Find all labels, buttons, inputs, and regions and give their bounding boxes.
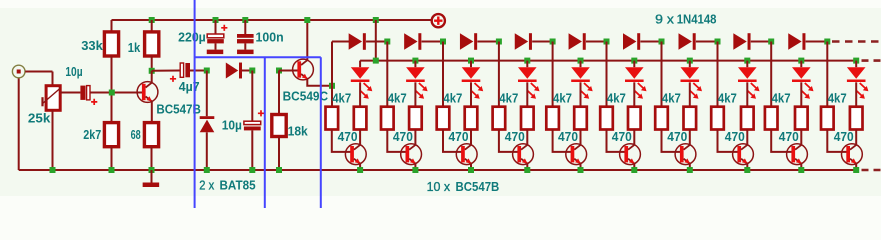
potentiometer 25k — [41, 86, 60, 111]
wire ladder segment 2 — [422, 41, 443, 43]
svg-text:4k7: 4k7 — [443, 91, 462, 106]
wire tap to R6a — [606, 42, 608, 107]
resistor R10b 470 — [850, 107, 863, 130]
svg-text:4µ7: 4µ7 — [179, 79, 200, 94]
junction C4-ground rail — [249, 167, 255, 173]
blue partition line vertical right — [320, 57, 322, 208]
transistor Q8 BC547B stage 6 — [620, 144, 641, 165]
junction emitter 3-ground rail — [468, 167, 474, 173]
wire R6a to Q8 base — [607, 130, 626, 152]
LED D12 stage 1 — [351, 67, 373, 99]
resistor R3b 470 — [465, 107, 478, 130]
wire pot bottom to rail — [52, 110, 54, 170]
wire R9a to Q11 base — [771, 130, 792, 152]
wire bus to LED3 — [470, 61, 472, 68]
wire Q7 emitter to rail — [580, 163, 582, 170]
svg-text:470: 470 — [667, 129, 687, 144]
wire rail to 1k — [151, 20, 153, 32]
wire LED2 to R2b — [414, 82, 416, 106]
junction 18k top — [276, 68, 282, 74]
blue partition line horizontal — [195, 56, 321, 58]
wire R1a to Q3 base — [332, 130, 351, 152]
diode D4 1N4148 number 2 — [404, 33, 421, 50]
diode D9 1N4148 number 7 — [679, 33, 696, 50]
resistor R5a 4k7 — [546, 107, 559, 130]
wire Q9 emitter to rail — [689, 163, 691, 170]
capacitor C4 10u — [244, 121, 261, 130]
diode D11 1N4148 number 9 — [788, 33, 805, 50]
junction emitter 9-ground rail — [798, 167, 804, 173]
junction LED bus tap 8 — [744, 58, 750, 64]
wire R5b to Q7 collector — [580, 130, 582, 145]
wire pot to C1 — [60, 92, 80, 94]
wire 68 to rail — [151, 147, 153, 170]
junction pot-ground rail — [50, 167, 56, 173]
junction ladder tap 1 — [384, 39, 390, 45]
wire tap to R4a — [498, 42, 500, 107]
junction D2-ground rail — [204, 167, 210, 173]
junction ladder tap 8 — [768, 39, 774, 45]
junction ladder tap 7 — [715, 39, 721, 45]
wire bottom ground rail — [19, 169, 857, 171]
wire R4a to Q6 base — [499, 130, 518, 152]
wire R10a to Q12 base — [827, 130, 847, 152]
transistor Q4 BC547B stage 2 — [401, 144, 422, 165]
wire LED10 to R10b — [855, 82, 857, 106]
junction emitter 7-ground rail — [687, 167, 693, 173]
junction 2k7-ground rail — [109, 167, 115, 173]
svg-text:33k: 33k — [81, 38, 103, 53]
wire LED1 to R1b — [359, 82, 361, 106]
junction ladder tap 6 — [659, 39, 665, 45]
wire bus to LED4 — [526, 61, 528, 68]
LED D18 stage 7 — [681, 67, 703, 99]
junction Q2 collector-rail — [304, 17, 310, 23]
junction 1k top — [149, 17, 155, 23]
resistor R7a 4k7 — [655, 107, 668, 130]
wire ladder segment 6 — [640, 41, 661, 43]
LED D17 stage 6 — [625, 67, 647, 99]
wire R8a to Q10 base — [718, 130, 739, 152]
LED D20 stage 9 — [792, 67, 814, 99]
transistor Q1 BC547B — [137, 82, 158, 103]
svg-text:25k: 25k — [28, 110, 51, 125]
junction 18k-ground rail — [276, 167, 282, 173]
wire R1b to Q3 collector — [359, 130, 361, 145]
wire node to D2 — [206, 71, 208, 117]
wire C1 to Q1 base — [90, 92, 142, 94]
junction emitter 2-ground rail — [412, 167, 418, 173]
svg-text:18k: 18k — [288, 124, 309, 139]
transistor Q7 BC547B stage 5 — [566, 144, 587, 165]
junction LED bus feed — [373, 58, 379, 64]
wire dashed continuation of bottom rail — [862, 169, 881, 172]
resistor R4b 470 — [521, 107, 534, 130]
wire Q3 emitter to rail — [359, 163, 361, 170]
junction LED bus tap 10 — [853, 58, 859, 64]
wire 100n to ground — [244, 43, 246, 49]
wire R2b to Q4 collector — [414, 130, 416, 145]
wire tap to R7a — [661, 42, 663, 107]
wire R2a to Q4 base — [387, 130, 406, 152]
junction Q1 base node — [109, 90, 115, 96]
wire Q10 emitter to rail — [746, 163, 748, 170]
diode D1 BAT85 series — [226, 63, 242, 79]
svg-text:220µ: 220µ — [178, 30, 206, 45]
input connector J1 — [12, 65, 25, 78]
wire R9b to Q11 collector — [800, 130, 802, 145]
resistor 68 — [144, 123, 158, 147]
wire bus to LED9 — [800, 61, 802, 68]
wire Q11 emitter to rail — [800, 163, 802, 170]
wire tap to R2a — [386, 42, 388, 107]
junction emitter 4-ground rail — [524, 167, 530, 173]
svg-text:1k: 1k — [128, 40, 141, 55]
svg-text:470: 470 — [338, 129, 358, 144]
wire LED6 to R6b — [633, 82, 635, 106]
junction LED bus tap 6 — [631, 58, 637, 64]
LED D15 stage 4 — [518, 67, 540, 99]
wire bus elbow to LED1 — [359, 61, 361, 68]
wire 1k to node — [151, 56, 153, 71]
wire LED anode bus — [360, 60, 856, 62]
wire Q2 collector to rail — [306, 20, 308, 60]
wire bus to LED8 — [746, 61, 748, 68]
wire rail to 100n — [244, 20, 246, 34]
resistor R3a 4k7 — [437, 107, 450, 130]
wire dashed continuation of diode ladder — [832, 40, 881, 43]
wire dashed continuation of LED bus — [862, 59, 881, 62]
wire Q6 emitter to rail — [526, 163, 528, 170]
wire tap to R3a — [442, 42, 444, 107]
wire top supply rail — [112, 19, 432, 21]
transistor Q11 BC547B stage 9 — [787, 144, 808, 165]
transistor Q9 BC547B stage 7 — [675, 144, 696, 165]
wire bus to LED10 — [855, 61, 857, 68]
plus sign of C2 — [170, 76, 176, 82]
wire R8b to Q10 collector — [746, 130, 748, 145]
svg-text:1N4148: 1N4148 — [677, 12, 717, 27]
wire bus to LED6 — [633, 61, 635, 68]
wire R3b to Q5 collector — [470, 130, 472, 145]
wire 2k7 to rail — [111, 147, 113, 170]
svg-text:470: 470 — [393, 129, 413, 144]
resistor R1a 4k7 — [326, 107, 339, 130]
wire input to pot — [25, 71, 52, 73]
capacitor 220u — [207, 34, 224, 43]
junction emitter 1-ground rail — [357, 167, 363, 173]
wire R5a to Q7 base — [553, 130, 572, 152]
wire C2 to node — [190, 70, 207, 72]
wire LED3 to R3b — [470, 82, 472, 106]
diode D6 1N4148 number 4 — [515, 33, 532, 50]
svg-text:4k7: 4k7 — [553, 91, 572, 106]
wire R7b to Q9 collector — [689, 130, 691, 145]
wire LED8 to R8b — [746, 82, 748, 106]
junction detector node A — [204, 68, 210, 74]
junction emitter 6-ground rail — [631, 167, 637, 173]
wire C4 to rail — [251, 130, 253, 170]
wire rail to ground symbol — [151, 170, 153, 183]
svg-text:470: 470 — [834, 129, 854, 144]
wire ladder segment 5 — [586, 41, 607, 43]
wire Q1 emitter to 68 — [151, 101, 153, 123]
junction emitter 8-ground rail — [744, 167, 750, 173]
wire Q5 emitter to rail — [470, 163, 472, 170]
resistor 1k — [145, 32, 159, 56]
transistor Q2 BC549C — [293, 59, 314, 80]
junction LED bus tap 7 — [687, 58, 693, 64]
svg-text:4k7: 4k7 — [772, 91, 791, 106]
resistor R1b 470 — [354, 107, 367, 130]
svg-text:10µ: 10µ — [65, 64, 82, 79]
wire R7a to Q9 base — [662, 130, 681, 152]
resistor R8a 4k7 — [711, 107, 724, 130]
wire node to Q1 collector — [151, 71, 153, 84]
diode D7 1N4148 number 5 — [569, 33, 586, 50]
svg-text:100n: 100n — [256, 30, 284, 45]
diode D8 1N4148 number 6 — [623, 33, 640, 50]
wire tap to R5a — [552, 42, 554, 107]
svg-text:2 x: 2 x — [199, 178, 214, 193]
junction LED bus feed top — [373, 17, 379, 23]
wire ladder segment 4 — [532, 41, 552, 43]
wire ladder segment 1 — [366, 41, 387, 43]
transistor Q3 BC547B stage 1 — [345, 144, 366, 165]
resistor R2a 4k7 — [381, 107, 394, 130]
capacitor C1 10u — [80, 86, 90, 100]
wire down to pot top — [52, 72, 54, 86]
resistor R9b 470 — [795, 107, 808, 130]
svg-text:10 x: 10 x — [427, 179, 451, 194]
svg-text:10µ: 10µ — [222, 118, 242, 133]
blue partition line vertical left — [194, 0, 196, 208]
wire ladder start up — [331, 42, 333, 86]
svg-text:470: 470 — [558, 129, 578, 144]
resistor 18k — [272, 115, 286, 137]
wire Q8 emitter to rail — [633, 163, 635, 170]
junction ladder tap 9 — [824, 39, 830, 45]
transistor Q10 BC547B stage 8 — [733, 144, 754, 165]
svg-text:470: 470 — [779, 129, 799, 144]
junction LED bus tap 4 — [524, 58, 530, 64]
junction ladder tap 4 — [550, 39, 556, 45]
junction ladder tap 3 — [496, 39, 502, 45]
wire input connector to bottom rail — [18, 78, 20, 170]
resistor R5b 470 — [574, 107, 587, 130]
transistor Q5 BC547B stage 3 — [456, 144, 477, 165]
junction ladder tap 5 — [604, 39, 610, 45]
svg-text:4k7: 4k7 — [828, 91, 847, 106]
capacitor C2 4u7 — [180, 63, 190, 77]
wire R6b to Q8 collector — [633, 130, 635, 145]
wire rail to 33k — [111, 20, 113, 32]
svg-text:470: 470 — [725, 129, 745, 144]
resistor 33k — [104, 32, 118, 56]
wire Q2 emitter to ladder start — [307, 79, 332, 86]
wire LED4 to R4b — [526, 82, 528, 106]
LED D13 stage 2 — [406, 67, 428, 99]
wire tap to R10a — [826, 42, 828, 107]
junction 100n top — [242, 17, 248, 23]
plus sign of C1 — [91, 99, 97, 105]
resistor R7b 470 — [684, 107, 697, 130]
wire ladder segment 8 — [751, 41, 771, 43]
resistor R8b 470 — [741, 107, 754, 130]
diode D10 1N4148 number 8 — [733, 33, 750, 50]
wire tap to R8a — [717, 42, 719, 107]
wire node to Q2 base — [279, 70, 298, 72]
svg-text:2k7: 2k7 — [83, 127, 101, 142]
svg-text:BAT85: BAT85 — [220, 178, 256, 193]
svg-text:4k7: 4k7 — [718, 91, 737, 106]
junction LED bus tap 2 — [412, 58, 418, 64]
resistor R9a 4k7 — [765, 107, 778, 130]
wire node to 18k — [278, 71, 280, 115]
wire tap to R9a — [770, 42, 772, 107]
svg-text:4k7: 4k7 — [607, 91, 626, 106]
wire Q12 emitter to rail — [855, 163, 857, 170]
wire D2 to rail — [206, 132, 208, 170]
supply symbol +V — [432, 14, 445, 27]
wire bus to LED2 — [414, 61, 416, 68]
wire ladder start to R1a — [331, 86, 333, 107]
wire D1 to node — [242, 70, 252, 72]
ground symbol — [143, 183, 160, 188]
wire rail to LED bus — [375, 20, 377, 61]
wire ladder segment 9 — [806, 41, 828, 43]
junction 1k bottom node — [149, 68, 155, 74]
diode D2 BAT85 shunt — [200, 116, 215, 132]
LED D19 stage 8 — [738, 67, 760, 99]
wire ladder segment 0 — [332, 41, 350, 43]
wire rail to 220u — [215, 20, 217, 34]
resistor 2k7 — [104, 123, 118, 147]
plus sign of C4 — [258, 110, 264, 116]
wire R10b to Q12 collector — [855, 130, 857, 145]
svg-text:4k7: 4k7 — [332, 91, 351, 106]
resistor R2b 470 — [409, 107, 422, 130]
wire R3a to Q5 base — [443, 130, 462, 152]
junction LED bus tap 9 — [798, 58, 804, 64]
wire LED7 to R7b — [689, 82, 691, 106]
diode D3 1N4148 number 1 — [349, 33, 366, 50]
junction C4 top — [249, 68, 255, 74]
blue partition line vertical middle — [264, 57, 266, 208]
transistor Q6 BC547B stage 4 — [513, 144, 534, 165]
wire bus to LED7 — [689, 61, 691, 68]
junction ladder tap 2 — [440, 39, 446, 45]
junction 220u top — [213, 17, 219, 23]
junction ladder start node — [329, 83, 335, 89]
LED D14 stage 3 — [462, 67, 484, 99]
junction LED bus tap 3 — [468, 58, 474, 64]
diode D5 1N4148 number 3 — [460, 33, 477, 50]
wire LED9 to R9b — [800, 82, 802, 106]
svg-text:470: 470 — [505, 129, 525, 144]
svg-text:9 x: 9 x — [655, 12, 674, 27]
wire ladder segment 3 — [477, 41, 499, 43]
wire node to C2 — [152, 70, 181, 72]
svg-text:68: 68 — [131, 127, 141, 142]
resistor R6a 4k7 — [600, 107, 613, 130]
svg-text:4k7: 4k7 — [388, 91, 407, 106]
wire bus to LED5 — [580, 61, 582, 68]
LED D16 stage 5 — [571, 67, 593, 99]
resistor R10a 4k7 — [821, 107, 834, 130]
svg-text:470: 470 — [449, 129, 469, 144]
ground symbol of 220u — [207, 50, 224, 55]
junction emitter 5-ground rail — [578, 167, 584, 173]
wire LED5 to R5b — [580, 82, 582, 106]
transistor Q12 BC547B stage 10 — [842, 144, 863, 165]
resistor R4a 4k7 — [493, 107, 506, 130]
plus sign of 220u — [221, 25, 227, 31]
junction 68-ground rail — [149, 167, 155, 173]
wire node to C4 — [251, 71, 253, 122]
resistor R6b 470 — [628, 107, 641, 130]
wire 33k to 2k7 — [111, 56, 113, 123]
junction emitter 10-ground rail — [853, 167, 859, 173]
svg-text:4k7: 4k7 — [499, 91, 518, 106]
wire 18k to rail — [278, 137, 280, 171]
junction LED bus tap 5 — [578, 58, 584, 64]
subtle green tint band over circuit area — [0, 8, 881, 196]
svg-text:BC547B: BC547B — [456, 179, 500, 194]
LED D21 stage 10 — [847, 67, 869, 99]
svg-text:470: 470 — [612, 129, 632, 144]
wire ladder segment 7 — [696, 41, 718, 43]
ground symbol of 100n — [237, 50, 254, 55]
wire Q4 emitter to rail — [414, 163, 416, 170]
wire R4b to Q6 collector — [526, 130, 528, 145]
svg-text:4k7: 4k7 — [662, 91, 681, 106]
capacitor 100n — [237, 34, 254, 43]
wire 220u to ground — [215, 43, 217, 49]
